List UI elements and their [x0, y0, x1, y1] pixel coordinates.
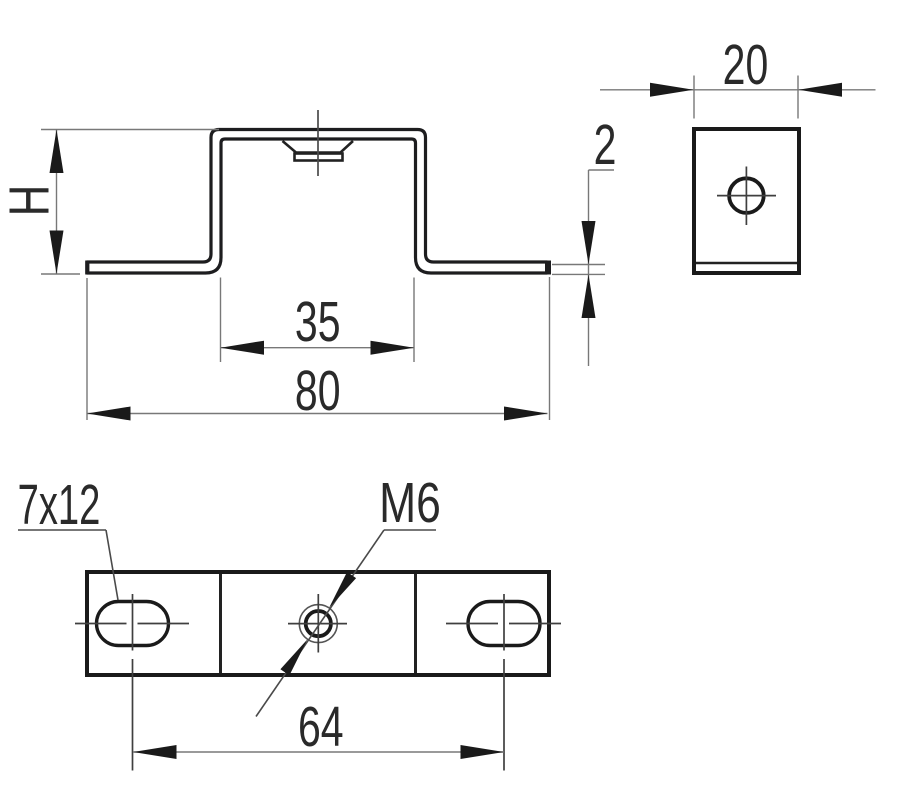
- centerline of countersink: [317, 110, 319, 176]
- side view flange thickness line: [696, 262, 797, 265]
- dimension 80 arrow right: [504, 407, 548, 421]
- dimension H extension line bottom: [41, 273, 80, 275]
- dimension 35 line: [221, 347, 415, 349]
- M6 hole inner circle: [306, 611, 331, 636]
- 7x12 label shoulder: [18, 529, 106, 531]
- bottom view bend line right: [414, 574, 417, 673]
- dimension 64 line: [133, 751, 504, 753]
- dimension 35 arrow left: [221, 341, 265, 355]
- M6 crosshair horizontal: [288, 623, 347, 625]
- dimension 80 extension lines: [86, 278, 88, 420]
- M6 leader arrow upper: [329, 572, 356, 608]
- right slot centerline horizontal: [446, 623, 498, 625]
- dimension 35 arrow right: [371, 341, 415, 355]
- dimension 2 shoulder: [589, 169, 615, 171]
- side view hole crosshair horizontal: [717, 195, 776, 197]
- M6 label shoulder: [384, 529, 436, 531]
- dimension 20 arrow pointing right: [650, 83, 694, 97]
- countersink dimple in hat top: [283, 141, 354, 161]
- dimension 20 arrow pointing left: [799, 83, 843, 97]
- front view: hat bracket cross-section outline: [87, 130, 547, 274]
- left slot 7x12: [97, 602, 169, 646]
- left slot centerline horizontal: [75, 623, 127, 625]
- dimension 20 extension lines: [693, 76, 695, 119]
- dimension 64 arrow right: [461, 745, 505, 759]
- 7x12 leader line: [106, 530, 118, 600]
- svg-text:80: 80: [295, 358, 341, 422]
- dimension H extension line top: [41, 129, 219, 131]
- svg-text:35: 35: [295, 289, 341, 353]
- dimension H arrow down: [50, 231, 64, 275]
- M6 thread outer circle: [299, 605, 337, 643]
- svg-text:H: H: [0, 185, 61, 217]
- svg-text:M6: M6: [379, 471, 441, 535]
- dimension 20 line: [600, 89, 876, 91]
- flange left end cap: [85, 261, 89, 275]
- dimension 80 arrow left: [87, 407, 131, 421]
- dimension H line: [56, 130, 58, 275]
- svg-text:7x12: 7x12: [18, 473, 101, 536]
- bottom view: plate outline rectangle: [87, 572, 549, 675]
- dimension 2 extension lines: [552, 264, 605, 266]
- left slot centerline vertical: [132, 594, 134, 651]
- dimension 2 line: [588, 170, 590, 366]
- M6 leader line: [256, 530, 384, 717]
- dimension 2 arrow up: [582, 274, 596, 318]
- right slot centerline vertical: [503, 594, 505, 651]
- M6 leader arrow lower: [280, 639, 307, 675]
- dimension 64 arrow left: [133, 745, 177, 759]
- svg-text:64: 64: [298, 694, 344, 758]
- svg-text:20: 20: [723, 32, 769, 96]
- svg-text:2: 2: [594, 112, 617, 176]
- side view hole crosshair vertical: [745, 167, 747, 226]
- dimension 80 line: [87, 413, 548, 415]
- side view hole circle: [729, 178, 764, 213]
- flange right end cap: [545, 261, 551, 275]
- right slot 7x12: [468, 602, 540, 646]
- dimension 35 extension lines: [220, 278, 222, 363]
- dimension 2 arrow down: [582, 221, 596, 264]
- M6 crosshair vertical: [317, 594, 319, 653]
- dimension H arrow up: [50, 130, 64, 174]
- bottom view bend line left: [219, 574, 222, 673]
- side view: bracket plate rectangle: [694, 129, 799, 273]
